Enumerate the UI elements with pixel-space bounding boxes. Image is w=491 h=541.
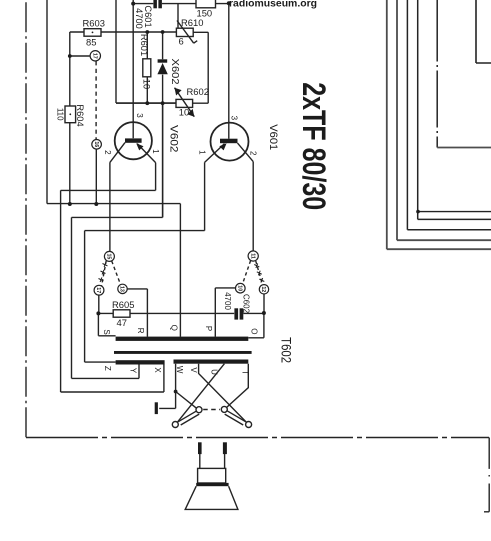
svg-text:U: U (209, 369, 218, 375)
svg-text:10: 10 (141, 79, 151, 89)
svg-text:85: 85 (86, 37, 96, 48)
svg-text:X: X (153, 367, 162, 373)
svg-text:17: 17 (92, 53, 98, 59)
svg-text:11: 11 (249, 253, 255, 259)
svg-text:W: W (175, 366, 184, 374)
svg-text:2: 2 (103, 150, 112, 155)
svg-text:X602: X602 (169, 59, 180, 85)
svg-text:17: 17 (95, 287, 101, 293)
svg-text:C602: C602 (242, 294, 251, 314)
svg-text:10: 10 (179, 106, 189, 117)
svg-text:V601: V601 (267, 124, 279, 150)
svg-text:2xTF 80/30: 2xTF 80/30 (296, 82, 332, 210)
svg-text:4700: 4700 (223, 292, 232, 310)
svg-text:R602: R602 (187, 86, 209, 97)
svg-text:S: S (102, 329, 111, 334)
svg-text:16: 16 (93, 141, 99, 147)
svg-text:R601: R601 (139, 34, 149, 56)
svg-text:P: P (204, 326, 213, 331)
svg-text:R610: R610 (181, 17, 203, 28)
svg-text:R605: R605 (112, 299, 134, 310)
svg-text:R603: R603 (83, 17, 105, 28)
svg-text:1: 1 (151, 149, 160, 154)
svg-text:110: 110 (56, 108, 65, 121)
svg-text:O: O (249, 328, 258, 334)
svg-text:Y: Y (129, 368, 138, 374)
svg-text:47: 47 (117, 317, 127, 328)
svg-text:1: 1 (198, 150, 207, 155)
svg-text:15: 15 (106, 253, 112, 259)
svg-text:Q: Q (170, 325, 179, 331)
svg-text:6: 6 (179, 35, 184, 46)
svg-text:radiomuseum.org: radiomuseum.org (229, 0, 317, 10)
svg-text:V: V (189, 367, 198, 373)
svg-text:R604: R604 (75, 104, 85, 126)
svg-text:2: 2 (248, 151, 257, 156)
svg-text:10: 10 (237, 285, 243, 291)
svg-text:Z: Z (103, 366, 112, 371)
svg-text:T: T (241, 370, 250, 375)
svg-text:T602: T602 (278, 337, 294, 363)
svg-text:R: R (136, 328, 145, 334)
svg-text:4700: 4700 (134, 8, 144, 29)
svg-text:V602: V602 (167, 125, 179, 153)
svg-text:3: 3 (230, 116, 239, 121)
svg-text:12: 12 (260, 286, 266, 292)
svg-text:13: 13 (119, 286, 125, 292)
svg-text:3: 3 (135, 113, 144, 118)
